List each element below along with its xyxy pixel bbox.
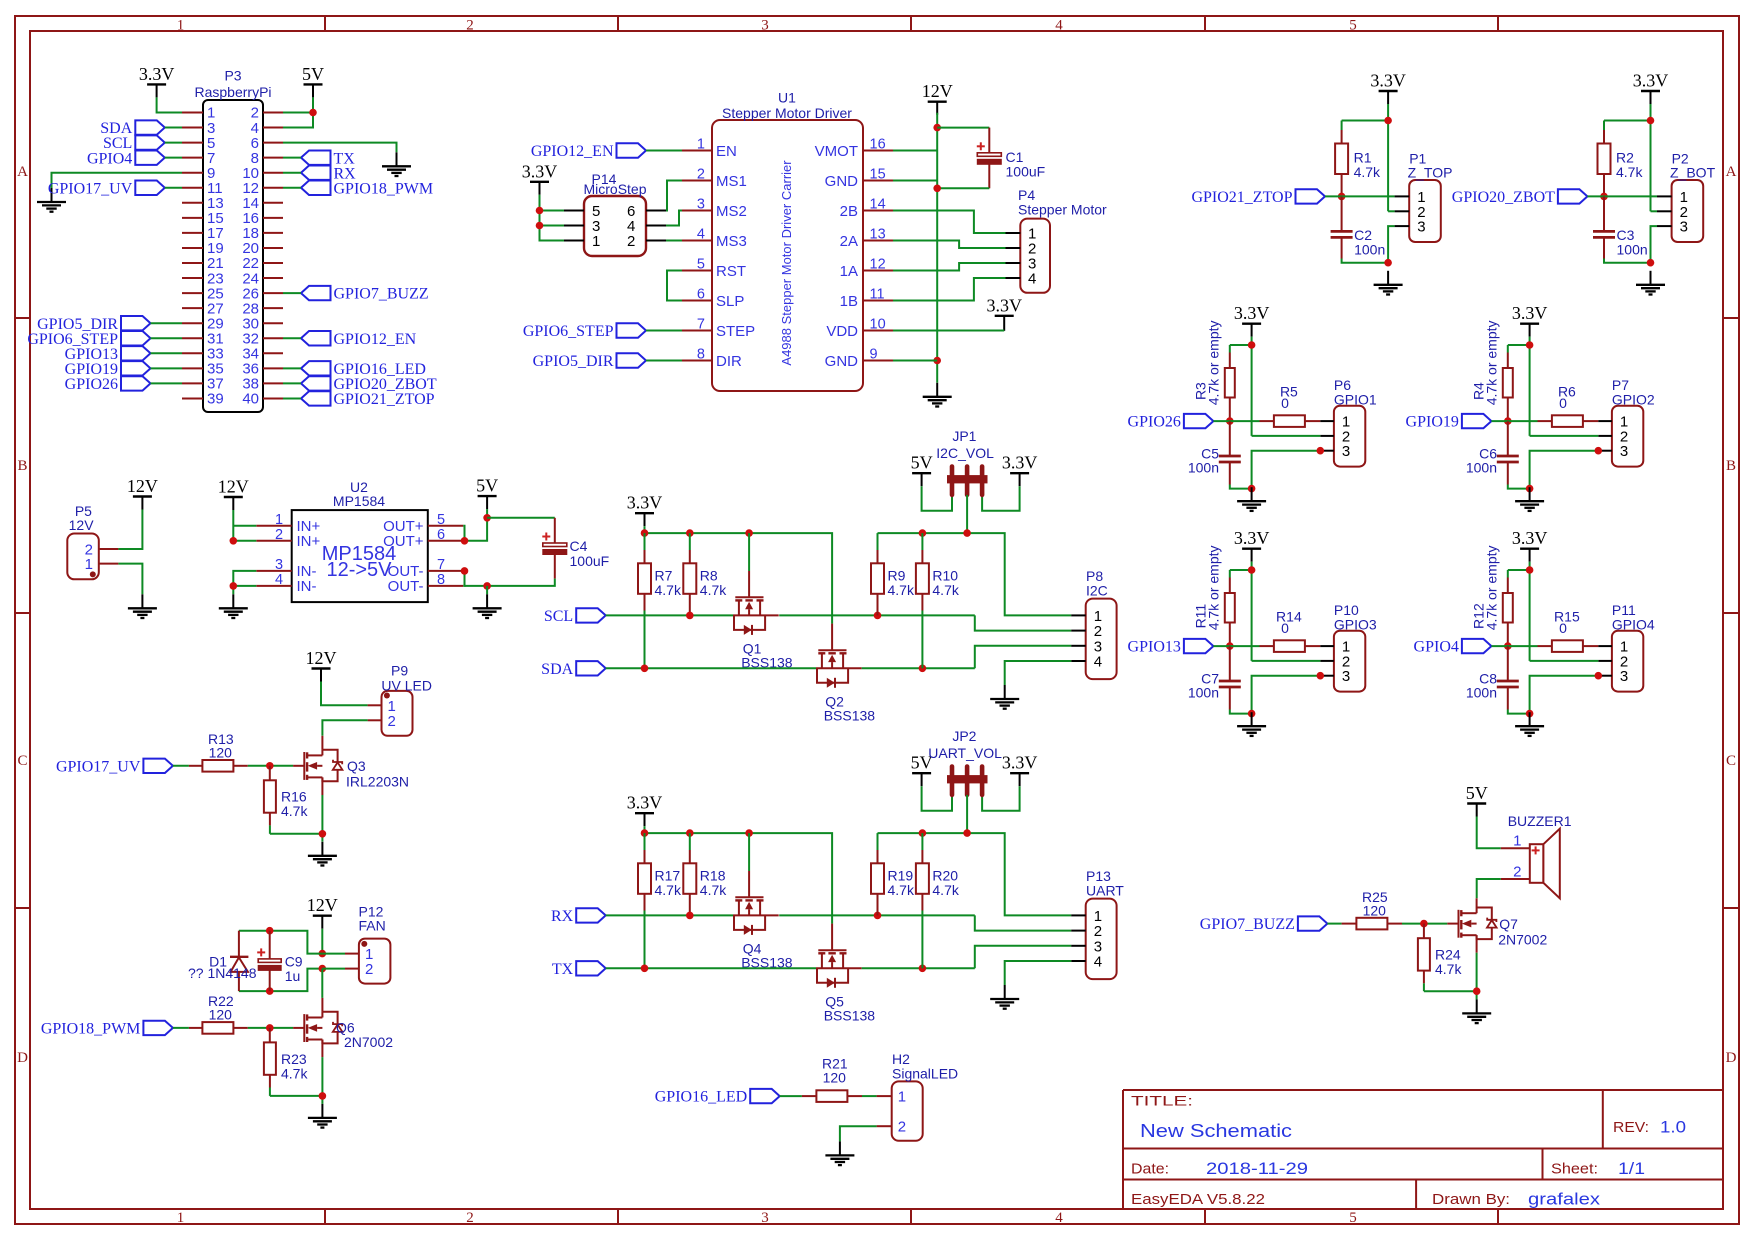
net flag GPIO20_ZBOT right of P3 [301,376,331,390]
wire 5V rail [878,533,1072,615]
net flag GPIO17_UV [143,759,173,773]
svg-text:4: 4 [1094,954,1102,971]
wire SDA to pin3 [165,127,182,129]
svg-text:4: 4 [1028,271,1036,288]
svg-text:39: 39 [207,391,224,408]
svg-text:GND: GND [825,353,859,370]
wire node to R6 [1491,420,1537,422]
junction Q3 source [319,830,327,838]
svg-text:GPIO5_DIR: GPIO5_DIR [533,353,614,370]
svg-text:U1: U1 [778,90,796,106]
svg-text:4: 4 [1094,654,1102,671]
wire TX row left [606,967,816,969]
wire BUZZER1 pin2 to Q7 drain [1477,879,1501,898]
junction R9 bottom [874,612,882,620]
wire C4 bottom to OUT- [487,579,555,586]
wire node to R5 [1213,420,1259,422]
ground at P6 [1251,487,1253,501]
svg-text:3.3V: 3.3V [627,493,663,513]
ground at P8 [1004,685,1006,699]
svg-text:GPIO6_STEP: GPIO6_STEP [523,323,614,340]
wire OUT- to ground [486,586,488,594]
wire 12V VMOT GND rail vertical [936,113,938,383]
svg-text:SignalLED: SignalLED [892,1066,958,1082]
svg-text:Date:: Date: [1131,1161,1169,1178]
net flag GPIO6_STEP at U1 [617,323,647,337]
power 3.3V at P10 [1242,548,1261,550]
svg-text:1/1: 1/1 [1618,1159,1645,1178]
svg-text:4.7k: 4.7k [888,582,915,598]
wire P14 pin6 to MS1 [666,181,682,211]
wire GPIO21_ZTOP from P3 [283,397,301,399]
svg-text:120: 120 [209,745,233,761]
junction 3.3V P1 [1384,117,1392,125]
wire node to P1 pin1 [1325,195,1395,197]
svg-text:0: 0 [1559,395,1567,411]
capacitor C9 1u [269,931,271,959]
wire R25 to Q7 gate [1402,923,1447,925]
svg-text:GPIO16_LED: GPIO16_LED [655,1089,747,1106]
svg-text:IN-: IN- [297,578,317,595]
svg-text:JP2: JP2 [952,728,976,744]
svg-text:RST: RST [716,263,746,280]
svg-text:4.7k: 4.7k [655,882,682,898]
wire GND15 row [893,180,937,182]
wire 5V rail [878,833,1072,915]
svg-text:2: 2 [388,713,396,730]
junction pin3 P7 [1595,447,1603,455]
svg-text:5V: 5V [1466,783,1488,803]
wire SCL to pin5 [165,142,182,144]
svg-text:120: 120 [209,1007,233,1023]
wire P8 pin4 to ground [1005,661,1071,685]
resistor R10 4.7k [921,533,923,550]
svg-text:2018-11-29: 2018-11-29 [1206,1159,1308,1178]
IC U1 A4988 Stepper Motor Driver [712,120,863,391]
wire 3.3V rail P7 [1529,337,1531,345]
connector P9 UV LED [382,691,413,736]
ground at P2 [1650,271,1652,285]
junction gnd node P11 [1526,710,1534,718]
svg-text:OUT-: OUT- [388,578,424,595]
wire R21 to H2 pin1 [862,1095,877,1097]
svg-text:GPIO20_ZBOT: GPIO20_ZBOT [1452,189,1555,206]
ground at Q6 [321,1104,323,1118]
svg-text:STEP: STEP [716,323,755,340]
ground at U1 [936,383,938,397]
svg-text:12->5V: 12->5V [326,559,392,581]
svg-text:3: 3 [761,1210,769,1226]
svg-text:C: C [17,753,27,769]
wire P2 pin3 to gnd [1651,226,1658,263]
svg-text:6: 6 [697,287,705,303]
svg-text:3.3V: 3.3V [1002,753,1038,773]
svg-text:12V: 12V [306,648,337,668]
wire 3.3V to P11 pin2 [1530,660,1599,662]
svg-text:1u: 1u [285,968,301,984]
junction C1 top [933,124,941,132]
junction node GPIO20_ZBOT [1600,193,1608,201]
wire 3.3V rail to P14 pins 5 3 1 [540,195,565,241]
ground at U2 OUT- [486,594,488,608]
svg-text:3.3V: 3.3V [1512,303,1548,323]
resistor R1 4.7k [1341,121,1343,131]
wire P11 pin3 to gnd [1530,676,1599,714]
junction R19 bottom [874,912,882,920]
svg-text:100n: 100n [1466,460,1497,476]
junction U2 IN- [230,582,238,590]
svg-text:P9: P9 [391,663,408,679]
junction C9 bottom [266,987,274,995]
svg-text:3.3V: 3.3V [1370,71,1406,91]
wire GPIO17_UV to R13 [173,765,189,767]
wire C1 bottom to GND rail [937,187,989,189]
transistor Q2 BSS138 [831,624,833,651]
resistor R12 4.7k or empty [1507,570,1509,578]
svg-text:REV:: REV: [1613,1119,1649,1136]
connector P8 I2C [1086,599,1117,680]
junction node GPIO26 [1226,417,1234,425]
svg-text:100uF: 100uF [570,553,610,569]
wire JP2 pin2 to rail [966,795,968,833]
junction gnd node P2 [1647,259,1655,267]
junction node GPIO19 [1504,417,1512,425]
junction rail b [686,529,694,537]
svg-text:2: 2 [365,961,373,978]
svg-text:I2C: I2C [1086,583,1108,599]
power 3.3V at P2 [1641,90,1660,92]
svg-text:3.3V: 3.3V [522,161,558,181]
junction C1 bottom [933,185,941,193]
resistor R15 0 [1538,645,1553,647]
resistor R11 4.7k or empty [1229,570,1231,578]
svg-text:3: 3 [761,17,769,33]
svg-text:15: 15 [870,167,886,183]
svg-text:3: 3 [697,197,705,213]
power 5V at JP2 [912,772,931,774]
svg-text:A4988 Stepper Motor Driver Car: A4988 Stepper Motor Driver Carrier [779,160,794,366]
svg-text:3: 3 [1342,668,1350,685]
net flag GPIO17_UV at P3 [135,181,165,195]
svg-text:TITLE:: TITLE: [1131,1094,1193,1109]
net flag GPIO12_EN right of P3 [301,331,331,345]
junction 3.3V P10 [1248,566,1256,574]
wire H2 pin2 to ground [840,1126,877,1141]
junction R20 bottom [919,965,927,973]
ground at U2 IN- [232,594,234,608]
svg-text:8: 8 [697,347,705,363]
svg-text:GPIO3: GPIO3 [1334,617,1377,633]
svg-text:SDA: SDA [541,661,573,678]
net flag SDA [135,120,165,134]
wire 2A to P4 pin2 [893,241,1006,249]
svg-text:3: 3 [1417,219,1425,236]
svg-text:3.3V: 3.3V [139,64,175,84]
resistor R6 0 [1538,420,1553,422]
svg-text:GND: GND [825,173,859,190]
wire GPIO5_DIR to P3 [151,322,183,324]
net flag GPIO18_PWM right of P3 [301,181,331,195]
connector P14 MicroStep [584,196,646,256]
svg-text:GPIO18_PWM: GPIO18_PWM [41,1021,141,1038]
svg-text:GPIO21_ZTOP: GPIO21_ZTOP [1191,189,1292,206]
wire VDD row [893,330,1004,332]
wire 3.3V rail P13 section [644,826,646,833]
title block [1123,1089,1723,1091]
svg-text:13: 13 [870,227,886,243]
junction rail c [745,529,753,537]
svg-text:R14: R14 [1276,608,1302,624]
wire Q7 source down [1476,935,1478,953]
junction 3.3V P6 [1248,341,1256,349]
svg-text:12V: 12V [922,81,953,101]
junction pin3 P6 [1317,447,1325,455]
svg-text:C4: C4 [570,538,588,554]
svg-text:IRL2203N: IRL2203N [346,774,409,790]
junction OUT- gnd node [483,582,491,590]
wire P1 pin3 to gnd [1388,226,1395,263]
wire VMOT row [893,150,937,152]
capacitor C8 100n [1507,646,1509,680]
svg-text:GPIO4: GPIO4 [87,150,132,167]
transistor Q1 BSS138 [748,533,750,571]
svg-text:GPIO4: GPIO4 [1612,617,1655,633]
power 3.3V at U1 VDD [995,315,1014,317]
svg-text:100n: 100n [1617,242,1648,258]
resistor R9 4.7k [877,533,879,550]
wire 3.3V to P2 pin2 [1651,210,1658,212]
junction gnd node P1 [1384,259,1392,267]
wire P12 stubs [322,953,345,955]
junction rail a [641,829,649,837]
svg-text:D: D [17,1050,28,1066]
junction node GPIO13 [1226,642,1234,650]
svg-text:4.7k: 4.7k [1616,164,1643,180]
wire 1A to P4 pin3 [893,263,1006,271]
junction rail a [641,529,649,537]
net flag GPIO19 [1462,414,1492,428]
resistor R25 120 [1342,923,1357,925]
net flag GPIO21_ZTOP right of P3 [301,391,331,405]
resistor R22 120 [189,1027,203,1029]
svg-text:40: 40 [242,391,259,408]
net flag SCL [576,608,606,622]
junction 5V rail r10 [919,529,927,537]
svg-text:3.3V: 3.3V [1512,528,1548,548]
svg-text:GPIO26: GPIO26 [1128,414,1181,431]
resistor R14 0 [1260,645,1275,647]
wire 2B to P4 pin1 [893,211,1006,234]
svg-text:5: 5 [437,512,445,528]
power 3.3V at JP2 [1010,772,1029,774]
wire D1 C9 top rail [239,931,322,954]
connector P1 Z_TOP [1409,180,1441,242]
ground at Q7 [1476,999,1478,1013]
wire GPIO18_PWM to R22 [173,1027,189,1029]
wire R23 to Q6 source [270,1095,323,1097]
net flag GPIO18_PWM [143,1021,173,1035]
wire P3 pin9 to ground [52,173,183,188]
net flag GPIO5_DIR at P3 [121,316,151,330]
power 12V at U1 VMOT [928,100,947,102]
wire 3.3V to P6 pin2 [1252,435,1321,437]
svg-text:New Schematic: New Schematic [1140,1120,1292,1141]
svg-text:GPIO12_EN: GPIO12_EN [531,143,614,160]
wire 3.3V to JP1 pin3 [982,486,1020,511]
power 3.3V at P6 [1242,323,1261,325]
resistor R19 4.7k [877,833,879,850]
junction gnd node P6 [1248,485,1256,493]
svg-text:3.3V: 3.3V [986,295,1022,315]
wire 1B to P4 pin4 [893,278,1006,301]
svg-text:IN+: IN+ [297,533,321,550]
junction 5V rail jp [963,829,971,837]
junction OUT+ pin6 [461,537,469,545]
svg-text:GPIO2: GPIO2 [1612,392,1655,408]
svg-text:SLP: SLP [716,293,744,310]
svg-text:R15: R15 [1554,608,1580,624]
wire node to R14 [1213,645,1259,647]
svg-text:2N7002: 2N7002 [1498,932,1547,948]
wire SDA row right [862,667,975,669]
wire TX row right [862,967,975,969]
wire IN- pins to ground [233,571,256,594]
frame zone ticks [324,16,326,31]
svg-text:Q3: Q3 [347,758,366,774]
wire 3.3V to JP2 pin3 [982,786,1020,811]
wire GPIO12_EN to EN [646,150,682,152]
svg-text:11: 11 [870,287,885,303]
capacitor C1 100uF [988,128,990,153]
svg-text:JP1: JP1 [952,428,976,444]
svg-text:Z_BOT: Z_BOT [1670,165,1716,181]
wire 12V to P9 pin1 [321,682,368,706]
wire GND9 row [893,360,937,362]
wire RX from P3 [283,172,301,174]
svg-text:1: 1 [697,137,705,153]
net flag GPIO12_EN at U1 [617,143,647,157]
wire P12 pin2 to Q6 drain [321,969,323,998]
wire P6 pin3 to gnd [1252,451,1321,489]
svg-text:Stepper Motor Driver: Stepper Motor Driver [722,105,852,121]
power 3.3V at P11 [1520,548,1539,550]
junction Q6 source [319,1092,327,1100]
wire 3.3V to P10 pin2 [1252,660,1321,662]
wire GPIO18_PWM from P3 [283,187,301,189]
connector P12 FAN [359,939,391,984]
svg-text:12V: 12V [307,895,338,915]
junction OUT- pin7 [461,567,469,575]
svg-text:SCL: SCL [544,608,573,625]
junction at 5V pin2 [309,109,317,117]
svg-text:100uF: 100uF [1006,164,1046,180]
connector P11 GPIO4 [1612,631,1643,692]
svg-text:1: 1 [177,1210,185,1226]
svg-text:7: 7 [697,317,705,333]
connector P4 Stepper Motor [1020,219,1050,293]
svg-text:B: B [1726,458,1736,474]
wire D1 C9 bottom rail [239,969,322,992]
power 12V at P12 [313,915,332,917]
ground at P3 pin6 [396,152,398,166]
svg-text:3.3V: 3.3V [1002,453,1038,473]
svg-text:Z_TOP: Z_TOP [1408,165,1453,181]
svg-text:GPIO4: GPIO4 [1414,639,1459,656]
net flag SDA [576,661,606,675]
wire node to R15 [1491,645,1537,647]
wire P5 pin2 to 12V [118,510,142,550]
wire RST-SLP loop [667,271,682,301]
junction 5V rail r10 [919,829,927,837]
wire GPIO7_BUZZ to R25 [1327,923,1341,925]
net flag GPIO16_LED [750,1089,780,1103]
connector P7 GPIO2 [1612,406,1643,467]
svg-text:4.7k or empty: 4.7k or empty [1206,545,1222,630]
wire 5V to BUZZER1 pin1 [1477,817,1501,849]
capacitor C7 100n [1229,646,1231,680]
wire P13 pin4 to ground [1005,961,1071,985]
svg-text:4.7k: 4.7k [700,882,727,898]
net flag GPIO5_DIR at U1 [617,353,647,367]
svg-text:1: 1 [85,556,93,573]
svg-text:4: 4 [1055,1210,1063,1226]
resistor R24 4.7k [1423,924,1425,939]
power 3.3V at JP1 [1010,472,1029,474]
net flag RX [576,908,606,922]
capacitor C2 100n [1341,196,1343,230]
resistor R2 4.7k [1603,121,1605,131]
svg-text:2N7002: 2N7002 [344,1034,393,1050]
svg-text:2A: 2A [840,233,858,250]
svg-text:GPIO17_UV: GPIO17_UV [56,758,141,775]
wire JP1 pin2 to rail [966,495,968,533]
junction Q7 gate [1420,920,1428,928]
wire 3.3V to P7 pin2 [1530,435,1599,437]
wire R16 to Q3 source [270,833,323,835]
svg-text:BUZZER1: BUZZER1 [1508,813,1572,829]
wire SCL row right [779,614,975,616]
net flag GPIO4 [1462,639,1492,653]
svg-text:16: 16 [870,137,886,153]
svg-text:4: 4 [697,227,705,243]
svg-text:TX: TX [552,961,574,978]
wire Q6 source down [321,1040,323,1058]
junction R17 bottom [641,965,649,973]
wire 3.3V rail P2 [1650,104,1652,121]
svg-text:Sheet:: Sheet: [1551,1161,1598,1178]
svg-text:UART: UART [1086,883,1124,899]
svg-text:0: 0 [1281,395,1289,411]
svg-text:C: C [1726,753,1736,769]
junction P14 pin5 [536,207,544,215]
wire GPIO7_BUZZ from P3 [283,292,301,294]
svg-text:0: 0 [1281,620,1289,636]
power 5V at BUZZER1 [1467,802,1486,804]
svg-text:100n: 100n [1466,685,1497,701]
net flag GPIO13 [1184,639,1214,653]
svg-text:100n: 100n [1354,242,1385,258]
resistor R5 0 [1260,420,1275,422]
wire RX row left [606,914,733,916]
wire 3.3V rail P1 [1387,104,1389,121]
svg-text:1: 1 [592,233,600,250]
svg-text:7: 7 [437,557,445,573]
svg-text:MS2: MS2 [716,203,747,220]
wire TX from P3 [283,157,301,159]
svg-text:Stepper Motor: Stepper Motor [1018,202,1107,218]
capacitor C4 100uF [554,518,556,543]
wire to C1 top [937,127,989,129]
